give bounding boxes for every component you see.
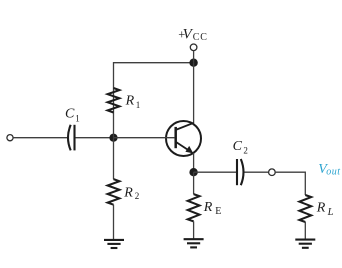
wire: base node to R2 (113, 138, 115, 180)
wire: Vcc terminal to junction (193, 51, 195, 63)
transistor Q1 (collector lead) (176, 123, 193, 130)
wire: emitter down to node (193, 153, 195, 172)
ground (under RE) (184, 239, 204, 247)
wire: output terminal to RL (275, 172, 305, 195)
ground (under R2) (104, 240, 124, 248)
svg-text:2: 2 (243, 146, 248, 156)
capacitor C1 (straight plate) (73, 125, 75, 151)
wire: C2 to output terminal (245, 171, 269, 173)
wire: emitter node to RE (193, 172, 195, 194)
wire: top rail R1 to Vcc (114, 63, 194, 138)
svg-text:E: E (215, 206, 221, 217)
capacitor C1 (curved plate) (68, 125, 71, 151)
svg-text:CC: CC (193, 32, 208, 43)
wire: RL to ground (304, 222, 306, 239)
svg-text:1: 1 (136, 100, 141, 110)
transistor Q1 (base bar) (174, 127, 177, 148)
transistor Q1 (emitter lead with arrow) (176, 142, 191, 152)
svg-text:C: C (233, 139, 243, 154)
wire: input terminal to C1 (13, 137, 67, 139)
svg-text:R: R (125, 93, 135, 108)
node: Vcc junction (dot) (189, 59, 197, 67)
ground (under RL) (295, 240, 315, 248)
wire: C1 to base node (76, 137, 114, 139)
svg-text:C: C (65, 107, 75, 122)
resistor R2 (108, 179, 120, 205)
node: base junction (dot) (109, 134, 117, 142)
wire: base node to transistor base (114, 137, 175, 139)
node: emitter junction (dot) (189, 168, 197, 176)
capacitor C2 (curved plate) (241, 159, 244, 185)
output terminal (open circle) (269, 169, 276, 176)
resistor R1 (108, 88, 120, 113)
resistor RE (188, 194, 200, 221)
svg-text:1: 1 (75, 113, 80, 123)
svg-text:R: R (316, 201, 326, 216)
wire: R2 to ground (113, 205, 115, 240)
wire: RE to ground (193, 221, 195, 239)
svg-text:L: L (327, 207, 334, 218)
svg-text:R: R (123, 185, 133, 200)
wire: emitter node to C2 (194, 171, 236, 173)
capacitor C2 (straight plate) (236, 159, 238, 185)
input terminal (open circle) (7, 135, 13, 141)
transistor Q1 (circle) (166, 121, 201, 156)
svg-text:2: 2 (135, 191, 140, 201)
wire: Vcc junction to collector (193, 63, 195, 124)
Vcc terminal (open circle) (190, 44, 197, 51)
svg-text:out: out (326, 166, 340, 177)
resistor RL (299, 195, 311, 222)
svg-text:R: R (203, 200, 213, 215)
